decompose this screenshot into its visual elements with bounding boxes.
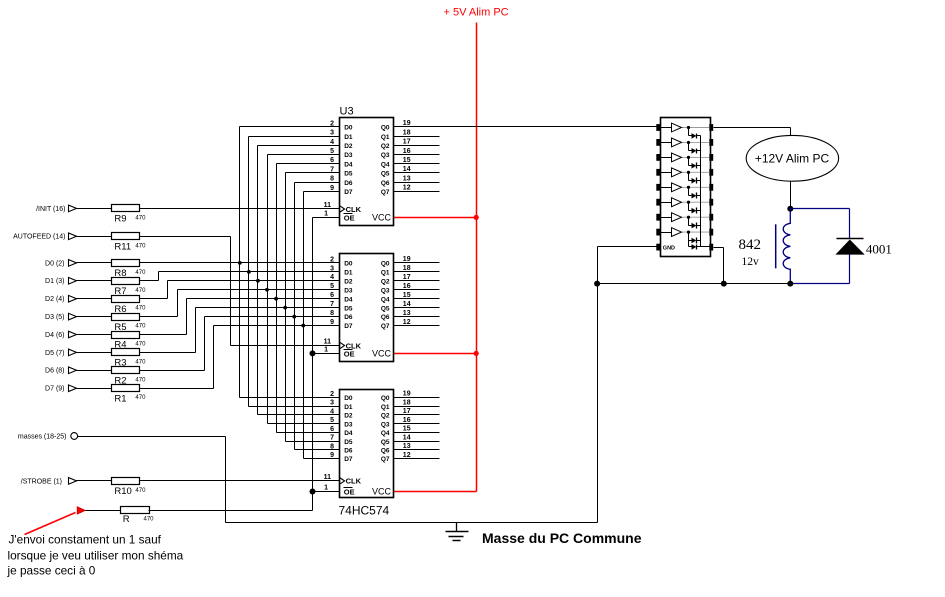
wire D1 (3) to R7 [77, 280, 112, 282]
wire D0 (2) to R8 [77, 262, 112, 264]
pin right 14 driver [709, 184, 713, 191]
svg-text:470: 470 [135, 359, 146, 365]
pin right 12 driver [709, 214, 713, 221]
connector masses (18-25) [18, 433, 78, 441]
svg-text:2: 2 [330, 256, 334, 263]
svg-text:D3 (5): D3 (5) [45, 314, 64, 321]
svg-text:D5: D5 [344, 305, 353, 312]
diode clamp 1 driver [689, 128, 701, 139]
pin left 8 driver [656, 229, 660, 236]
annotation note text [7, 533, 184, 578]
connector D5 (7) [45, 349, 76, 357]
junction D1 bus [247, 270, 251, 274]
svg-text:D7: D7 [344, 456, 353, 463]
svg-text:13: 13 [403, 310, 411, 317]
svg-text:74HC574: 74HC574 [339, 504, 390, 518]
pin left 5 driver [656, 184, 660, 191]
junction driver pin10 / relay return [721, 281, 727, 287]
svg-text:15: 15 [403, 292, 411, 299]
svg-text:4: 4 [330, 139, 334, 146]
svg-text:D2: D2 [344, 143, 353, 150]
svg-text:14: 14 [403, 301, 411, 308]
svg-text:470: 470 [135, 306, 146, 312]
svg-text:1: 1 [324, 485, 328, 492]
wire D2 (4) to R6 [77, 298, 112, 300]
IC U3 74HC574 [324, 106, 411, 226]
svg-text:Q4: Q4 [381, 161, 390, 168]
wire red input to R [86, 510, 121, 512]
svg-text:Q4: Q4 [381, 430, 390, 437]
connector OE control (red arrow input) [77, 507, 85, 514]
wire AUTOFEED to 74HC574 #2 CLK pin 11 [140, 237, 340, 346]
svg-text:Q1: Q1 [381, 269, 390, 276]
svg-text:D1: D1 [344, 134, 353, 141]
ground symbol Masse du PC [446, 523, 469, 541]
svg-text:Q3: Q3 [381, 152, 390, 159]
svg-text:D3: D3 [344, 152, 353, 159]
pin right 15 driver [709, 169, 713, 176]
resistor R3 470 [112, 349, 147, 369]
pin right 16 driver [709, 154, 713, 161]
svg-text:masses (18-25): masses (18-25) [18, 433, 67, 440]
svg-text:11: 11 [324, 202, 332, 209]
source +12V Alim PC [746, 135, 838, 181]
svg-text:16: 16 [403, 148, 411, 155]
svg-text:12v: 12v [742, 256, 760, 268]
svg-text:13: 13 [403, 175, 411, 182]
svg-text:6: 6 [330, 292, 334, 299]
wire +12V to relay coil [790, 182, 792, 209]
svg-text:1: 1 [324, 211, 328, 218]
svg-text:470: 470 [135, 215, 146, 221]
buffer channel 1 driver [661, 123, 710, 132]
wire relay return to ground bus [598, 283, 791, 285]
pin right 17 driver [709, 139, 713, 146]
junction D5 bus [283, 306, 287, 310]
diode clamp 8 driver [689, 233, 701, 244]
resistor R7 470 [112, 278, 147, 298]
svg-text:Q5: Q5 [381, 305, 390, 312]
svg-text:470: 470 [135, 488, 146, 494]
connector D1 (3) [45, 278, 76, 286]
svg-text:R11: R11 [114, 242, 131, 253]
svg-text:12: 12 [403, 185, 411, 192]
resistor R8 470 [112, 260, 147, 280]
svg-text:2: 2 [330, 391, 334, 398]
pin right 11 driver [709, 229, 713, 236]
junction coil bottom [787, 281, 793, 287]
pin left 7 driver [656, 214, 660, 221]
junction D7 bus [301, 324, 305, 328]
svg-text:OE: OE [344, 349, 355, 358]
relay coil 842 12v [739, 209, 791, 284]
svg-text:7: 7 [330, 166, 334, 173]
svg-text:5: 5 [330, 283, 334, 290]
svg-text:4001: 4001 [866, 241, 892, 256]
pin left 3 driver [656, 154, 660, 161]
junction D2 bus [256, 279, 260, 283]
label GND driver [663, 245, 675, 251]
svg-text:16: 16 [403, 417, 411, 424]
svg-text:18: 18 [403, 399, 411, 406]
pin right 13 driver [709, 199, 713, 206]
svg-text:842: 842 [739, 237, 762, 253]
resistor R9 470 [112, 205, 147, 225]
svg-text:D7: D7 [344, 189, 353, 196]
diode clamp 5 driver [689, 188, 701, 199]
pin left 1 driver [656, 124, 660, 131]
svg-text:+ 5V Alim PC: + 5V Alim PC [444, 7, 509, 19]
svg-text:Q4: Q4 [381, 296, 390, 303]
svg-text:Q1: Q1 [381, 134, 390, 141]
svg-text:Q6: Q6 [381, 314, 390, 321]
junction OE bus / #3 OE [310, 489, 316, 495]
svg-text:2: 2 [330, 120, 334, 127]
junction OE bus / #2 OE [310, 350, 316, 356]
svg-text:Masse du PC Commune: Masse du PC Commune [482, 530, 642, 546]
red annotation arrow [25, 513, 76, 535]
wire VCC 74HC574 #2 (red) [394, 353, 477, 355]
svg-text:R: R [123, 514, 130, 525]
svg-text:18: 18 [403, 129, 411, 136]
wire D2 data net [140, 146, 340, 415]
svg-text:je passe ceci à 0: je passe ceci à 0 [7, 564, 96, 578]
svg-text:8: 8 [330, 176, 334, 183]
junction +12V / coil / diode [787, 206, 793, 212]
connector /INIT (16) [36, 205, 76, 213]
svg-text:9: 9 [330, 452, 334, 459]
pin left 4 driver [656, 169, 660, 176]
svg-text:470: 470 [135, 324, 146, 330]
resistor R10 470 [112, 478, 147, 498]
svg-text:Q6: Q6 [381, 180, 390, 187]
diode clamp 2 driver [689, 143, 701, 154]
svg-text:Q3: Q3 [381, 287, 390, 294]
svg-text:3: 3 [330, 130, 334, 137]
wire D5 (7) to R3 [77, 352, 112, 354]
svg-text:Q2: Q2 [381, 143, 390, 150]
svg-text:D1: D1 [344, 404, 353, 411]
pin right 18 driver [709, 124, 713, 131]
svg-text:7: 7 [330, 301, 334, 308]
wire D1 data net [140, 137, 340, 407]
connector D0 (2) [45, 260, 76, 268]
svg-text:D5 (7): D5 (7) [45, 350, 64, 357]
svg-text:R10: R10 [114, 486, 131, 497]
wire U3 Q0 to driver input 1 [394, 126, 657, 128]
svg-text:12: 12 [403, 452, 411, 459]
svg-text:Q5: Q5 [381, 439, 390, 446]
connector /STROBE (1) [21, 478, 77, 486]
wire D3 data net [140, 155, 340, 424]
diode clamp 6 driver [689, 203, 701, 214]
svg-text:5: 5 [330, 417, 334, 424]
svg-text:6: 6 [330, 426, 334, 433]
svg-text:D4: D4 [344, 161, 353, 168]
pin left 9 driver [656, 244, 660, 251]
svg-text:Q2: Q2 [381, 413, 390, 420]
svg-text:Q7: Q7 [381, 456, 390, 463]
wire driver GND to ground bus [598, 247, 657, 523]
wire masses to ground bus [78, 437, 226, 523]
svg-text:D0: D0 [344, 261, 353, 268]
svg-text:D7 (9): D7 (9) [45, 386, 64, 393]
svg-text:Q1: Q1 [381, 404, 390, 411]
svg-text:GND: GND [663, 245, 675, 251]
wire R to OE bus [149, 510, 313, 512]
svg-text:D0: D0 [344, 395, 353, 402]
svg-text:11: 11 [324, 339, 332, 346]
diode clamp 7 driver [689, 218, 701, 229]
svg-text:15: 15 [403, 157, 411, 164]
resistor R5 470 [112, 314, 147, 333]
buffer channel 5 driver [661, 183, 710, 192]
svg-text:14: 14 [403, 434, 411, 441]
svg-text:3: 3 [330, 265, 334, 272]
svg-text:470: 470 [135, 377, 146, 383]
junction D6 bus [292, 315, 296, 319]
svg-text:/STROBE (1): /STROBE (1) [21, 478, 62, 485]
label Masse du PC Commune [482, 530, 642, 546]
junction D0 bus [238, 261, 242, 265]
svg-text:D0 (2): D0 (2) [45, 260, 64, 267]
wire driver pin10 to relay return [714, 248, 724, 284]
connector D4 (6) [45, 331, 76, 339]
diode clamp 4 driver [689, 173, 701, 184]
svg-text:470: 470 [135, 288, 146, 294]
svg-text:D4: D4 [344, 430, 353, 437]
svg-text:9: 9 [330, 185, 334, 192]
svg-text:16: 16 [403, 283, 411, 290]
buffer channel 4 driver [661, 168, 710, 177]
diode 4001 flyback [835, 239, 892, 257]
svg-text:D2: D2 [344, 278, 353, 285]
svg-text:4: 4 [330, 408, 334, 415]
junction ground bus / relay return [594, 281, 600, 287]
svg-text:3: 3 [330, 400, 334, 407]
wires U3 outputs Q0-Q7 [394, 137, 440, 192]
pin left 6 driver [656, 199, 660, 206]
svg-text:D6: D6 [344, 314, 353, 321]
wires 74HC574 #3 outputs Q0-Q7 [394, 398, 440, 459]
svg-text:D6 (8): D6 (8) [45, 368, 64, 375]
svg-text:470: 470 [135, 243, 146, 249]
resistor R2 470 [112, 367, 147, 387]
junction D3 bus [265, 288, 269, 292]
svg-text:Q0: Q0 [381, 125, 390, 132]
svg-text:R9: R9 [114, 214, 126, 225]
resistor R6 470 [112, 296, 147, 315]
diode clamp 3 driver [689, 158, 701, 169]
svg-text:D6: D6 [344, 180, 353, 187]
svg-text:VCC: VCC [372, 349, 392, 359]
svg-text:Q0: Q0 [381, 261, 390, 268]
svg-text:Q6: Q6 [381, 447, 390, 454]
wire D7 data net [140, 192, 340, 459]
svg-text:8: 8 [330, 443, 334, 450]
svg-text:Q0: Q0 [381, 395, 390, 402]
svg-text:5: 5 [330, 148, 334, 155]
connector AUTOFEED (14) [13, 233, 76, 241]
svg-text:Q5: Q5 [381, 171, 390, 178]
svg-text:R1: R1 [114, 393, 126, 404]
svg-text:7: 7 [330, 435, 334, 442]
wire D4 data net [140, 164, 340, 433]
wire /INIT to U3 CLK pin 11 [140, 208, 340, 210]
wire ground bus bottom [226, 522, 598, 524]
svg-text:470: 470 [135, 270, 146, 276]
svg-text:D1: D1 [344, 269, 353, 276]
connector D6 (8) [45, 367, 76, 375]
resistor R 470 [121, 507, 155, 525]
buffer channel 7 driver [661, 213, 710, 222]
svg-text:+12V Alim PC: +12V Alim PC [755, 151, 830, 165]
svg-text:470: 470 [135, 342, 146, 348]
net +5V Alim PC label [444, 7, 509, 19]
wire OE bus [313, 218, 340, 511]
svg-text:8: 8 [330, 310, 334, 317]
wire VCC U3 (red) [394, 217, 477, 219]
svg-text:D1 (3): D1 (3) [45, 278, 64, 285]
svg-text:AUTOFEED (14): AUTOFEED (14) [13, 234, 65, 241]
svg-text:CLK: CLK [346, 477, 362, 486]
svg-text:D7: D7 [344, 323, 353, 330]
IC 74HC574 #3 74HC574 [324, 390, 411, 518]
wire D7 (9) to R1 [77, 388, 112, 390]
wire D6 data net [140, 183, 340, 450]
wire /STROBE (1) to R10 [77, 480, 112, 482]
wire D0 data net [140, 127, 340, 398]
wire coil top to diode (navy) [791, 209, 850, 239]
svg-text:470: 470 [144, 516, 155, 522]
junction +5V / VCC #2 [474, 351, 479, 356]
svg-text:Q7: Q7 [381, 323, 390, 330]
svg-text:D6: D6 [344, 447, 353, 454]
resistor R4 470 [112, 332, 147, 351]
junction D4 bus [274, 297, 278, 301]
pin left 2 driver [656, 139, 660, 146]
svg-text:D2: D2 [344, 413, 353, 420]
wire D5 data net [140, 173, 340, 442]
svg-text:D3: D3 [344, 287, 353, 294]
diode clamp 9 driver (GND row) [689, 233, 701, 250]
buffer channel 8 driver [661, 228, 710, 237]
wire D6 (8) to R2 [77, 370, 112, 372]
svg-text:/INIT (16): /INIT (16) [36, 206, 65, 213]
svg-text:D4 (6): D4 (6) [45, 332, 64, 339]
svg-text:D3: D3 [344, 421, 353, 428]
wire D4 (6) to R4 [77, 334, 112, 336]
svg-text:17: 17 [403, 274, 411, 281]
wires 74HC574 #2 outputs Q0-Q7 [394, 263, 440, 326]
svg-text:Q2: Q2 [381, 278, 390, 285]
svg-text:J'envoi constament un 1 sauf: J'envoi constament un 1 sauf [9, 533, 162, 547]
junction +5V / VCC U3 [474, 215, 479, 220]
svg-text:6: 6 [330, 157, 334, 164]
buffer channel 6 driver [661, 198, 710, 207]
buffer channel 3 driver [661, 153, 710, 162]
svg-text:Q3: Q3 [381, 421, 390, 428]
svg-text:VCC: VCC [372, 213, 392, 223]
svg-text:Q7: Q7 [381, 189, 390, 196]
wire +5V vertical [476, 23, 478, 492]
driver IC ULN2803 body [661, 118, 711, 257]
svg-text:OE: OE [344, 213, 355, 222]
pin right 10 driver [709, 244, 713, 251]
svg-text:U3: U3 [340, 106, 354, 118]
svg-text:470: 470 [135, 395, 146, 401]
wire VCC 74HC574 #3 (red) [394, 491, 477, 493]
wire common rail driver [701, 136, 710, 247]
connector D3 (5) [45, 313, 76, 321]
svg-text:OE: OE [344, 488, 355, 497]
wire diode bottom to coil bottom (navy) [791, 255, 850, 284]
IC 74HC574 #2 74HC574 [324, 254, 411, 362]
svg-text:D5: D5 [344, 439, 353, 446]
svg-text:15: 15 [403, 426, 411, 433]
wire /INIT (16) to R9 [77, 208, 112, 210]
svg-text:12: 12 [403, 319, 411, 326]
wire AUTOFEED (14) to R11 [77, 236, 112, 238]
connector D2 (4) [45, 295, 76, 303]
svg-text:D0: D0 [344, 125, 353, 132]
resistor R11 470 [112, 233, 147, 253]
wire driver out1 to +12V ellipse [714, 128, 791, 136]
svg-text:19: 19 [403, 391, 411, 398]
svg-text:D4: D4 [344, 296, 353, 303]
buffer channel 2 driver [661, 138, 710, 147]
svg-text:11: 11 [324, 474, 332, 481]
wire /STROBE to 74HC574 #3 CLK pin 11 [140, 480, 340, 482]
svg-text:17: 17 [403, 139, 411, 146]
svg-text:D2 (4): D2 (4) [45, 296, 64, 303]
svg-text:lorsque je veu utiliser mon sh: lorsque je veu utiliser mon shéma [8, 549, 184, 563]
resistor R1 470 [112, 385, 147, 405]
wire D3 (5) to R5 [77, 316, 112, 318]
svg-text:VCC: VCC [372, 487, 392, 497]
svg-text:D5: D5 [344, 171, 353, 178]
svg-text:9: 9 [330, 319, 334, 326]
connector D7 (9) [45, 385, 76, 393]
svg-text:1: 1 [324, 347, 328, 354]
svg-text:4: 4 [330, 274, 334, 281]
